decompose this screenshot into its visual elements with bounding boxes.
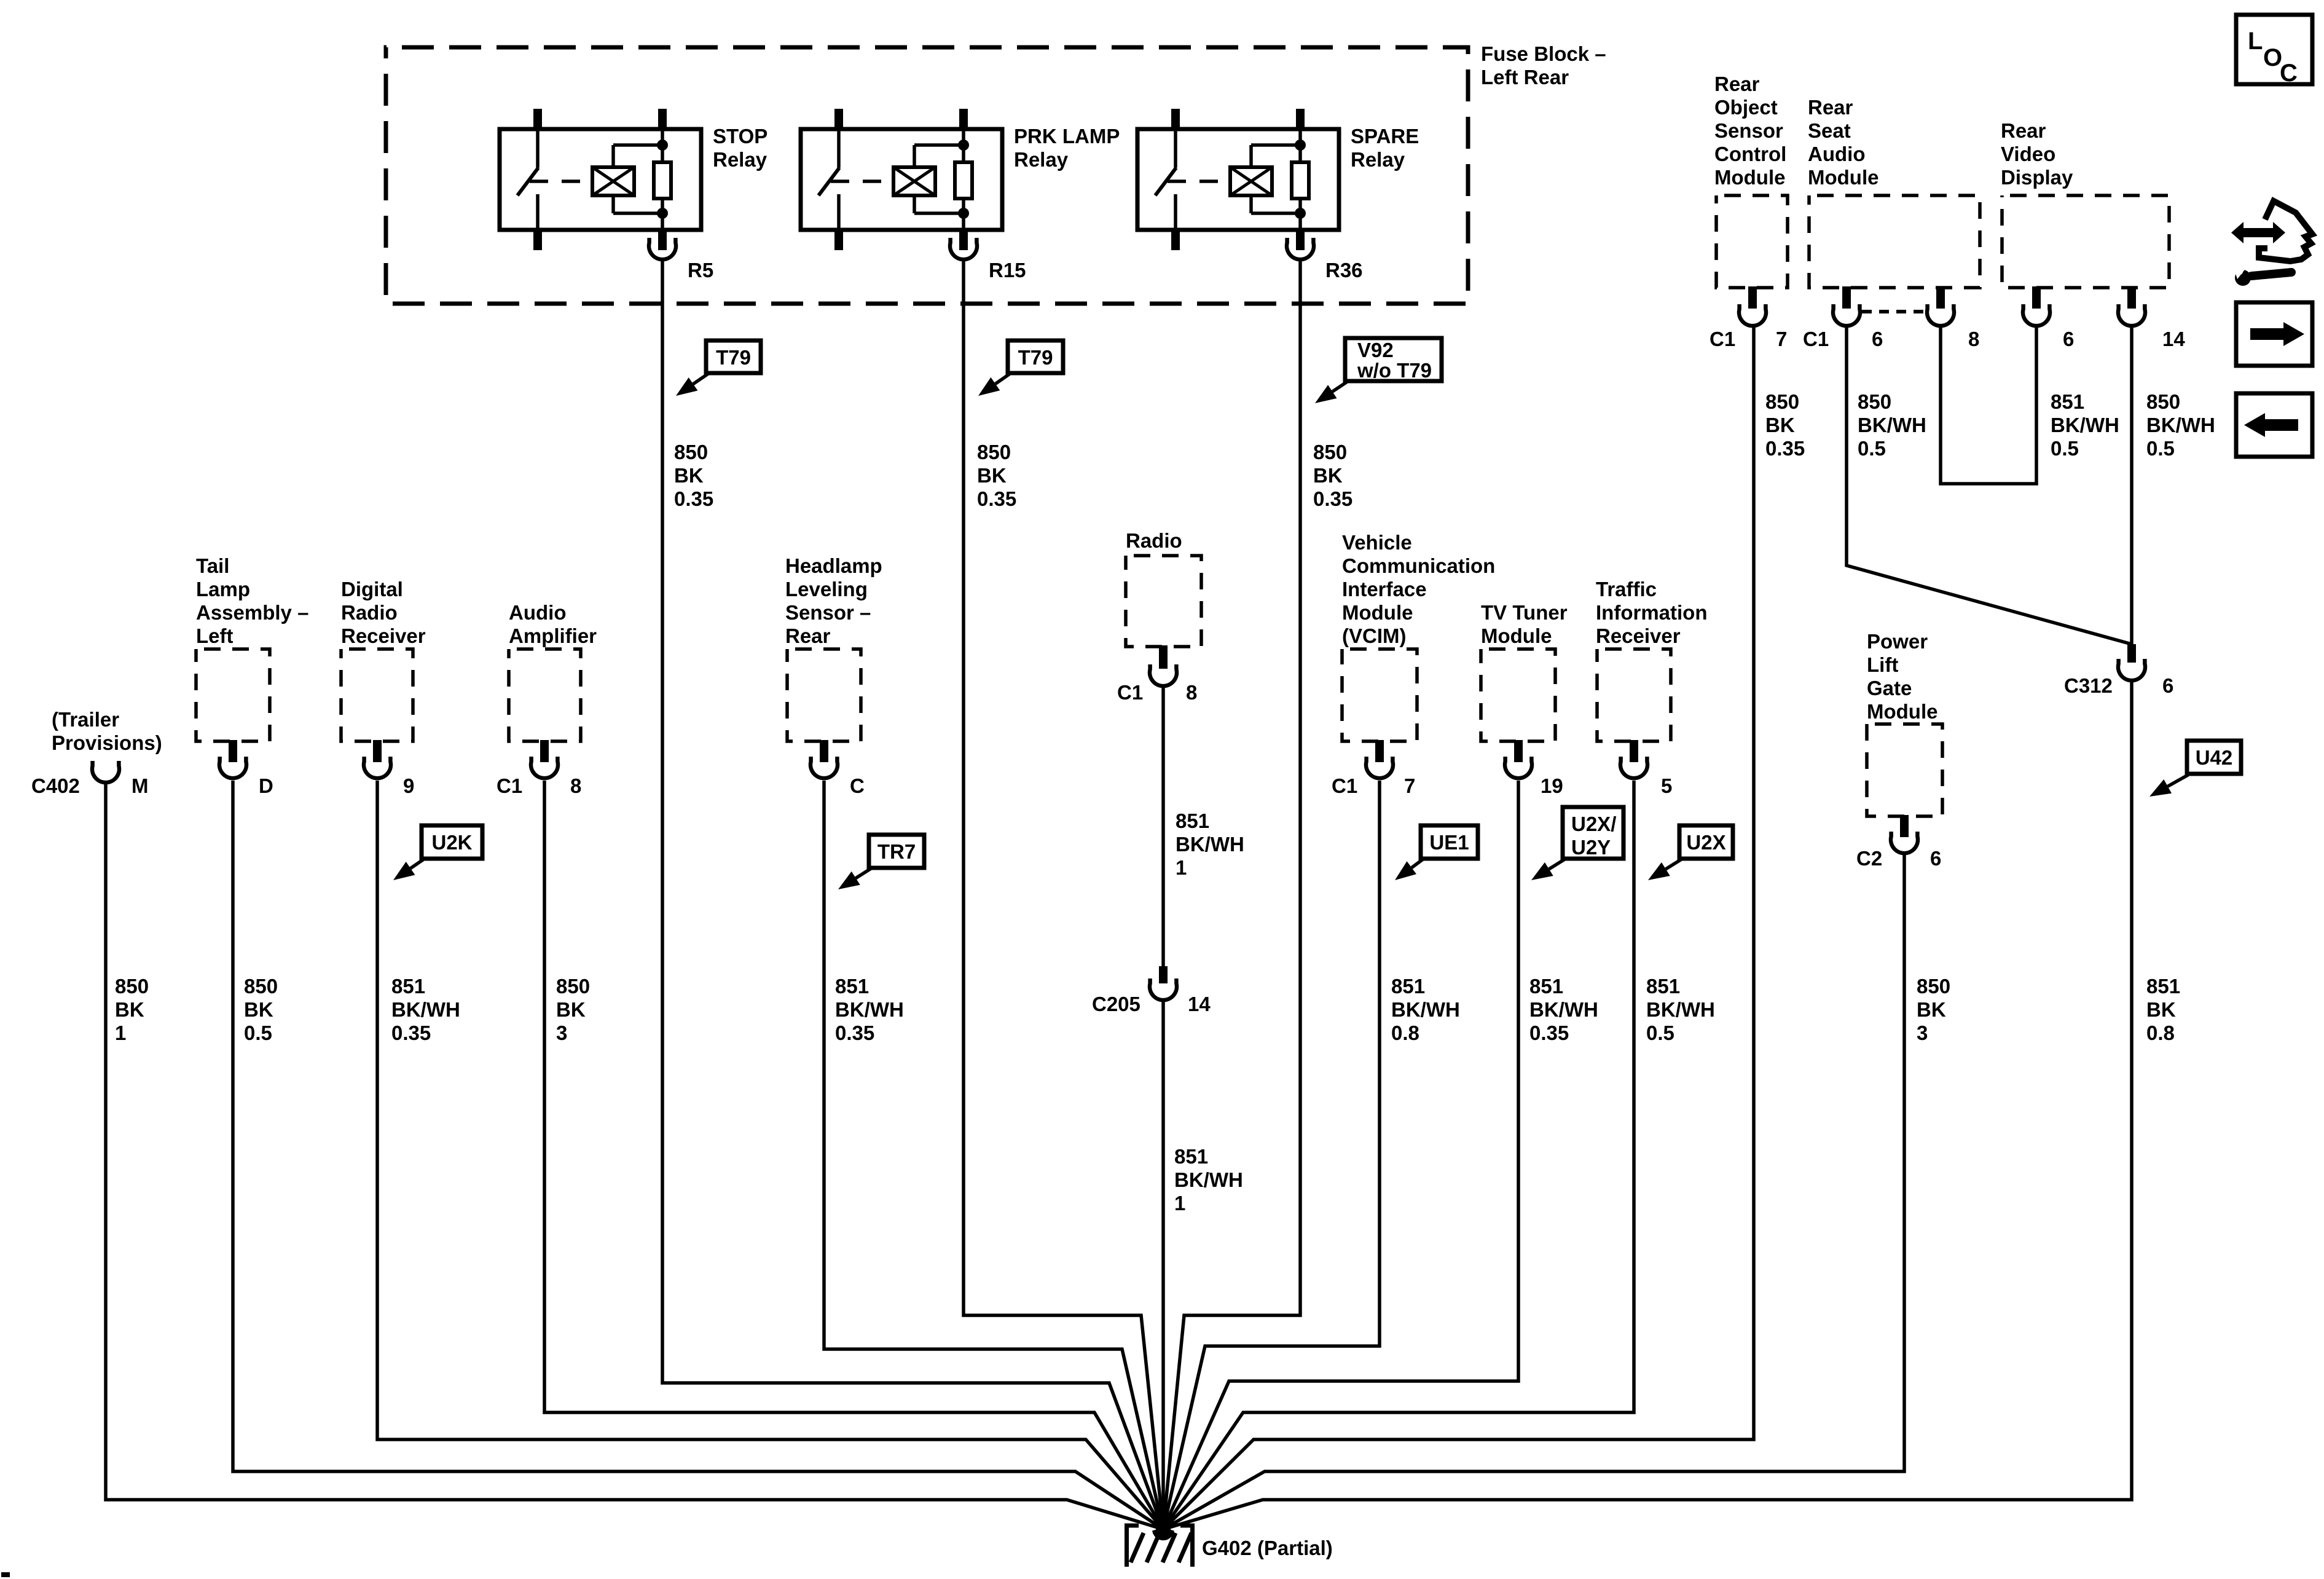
svg-text:G402 (Partial): G402 (Partial): [1202, 1537, 1333, 1559]
svg-text:BK/WH: BK/WH: [391, 998, 460, 1021]
svg-text:0.5: 0.5: [1858, 437, 1886, 460]
svg-text:BK: BK: [1917, 998, 1946, 1021]
svg-text:851: 851: [1174, 1145, 1208, 1168]
svg-text:0.35: 0.35: [1765, 437, 1805, 460]
svg-text:PRK LAMP: PRK LAMP: [1014, 125, 1120, 148]
svg-text:0.35: 0.35: [835, 1022, 874, 1044]
svg-text:Control: Control: [1714, 143, 1786, 165]
svg-text:V92: V92: [1357, 339, 1394, 361]
svg-text:BK/WH: BK/WH: [835, 998, 904, 1021]
svg-text:14: 14: [1188, 993, 1211, 1015]
svg-text:Receiver: Receiver: [341, 624, 426, 647]
svg-text:w/o T79: w/o T79: [1357, 359, 1432, 382]
svg-text:Interface: Interface: [1342, 578, 1427, 600]
svg-text:851: 851: [2051, 390, 2084, 413]
svg-text:0.35: 0.35: [391, 1022, 431, 1044]
svg-text:0.5: 0.5: [1646, 1022, 1674, 1044]
svg-text:BK/WH: BK/WH: [2051, 414, 2119, 436]
svg-text:Gate: Gate: [1867, 677, 1912, 699]
svg-text:Radio: Radio: [341, 601, 398, 624]
svg-text:U42: U42: [2196, 746, 2233, 769]
svg-text:BK: BK: [556, 998, 586, 1021]
svg-text:Provisions): Provisions): [52, 731, 162, 754]
svg-text:R15: R15: [989, 259, 1026, 282]
svg-text:8: 8: [1968, 328, 1979, 350]
svg-text:Rear: Rear: [785, 624, 831, 647]
svg-text:7: 7: [1404, 774, 1415, 797]
svg-text:0.35: 0.35: [1313, 487, 1352, 510]
svg-text:Relay: Relay: [1014, 148, 1069, 171]
svg-text:851: 851: [1529, 975, 1563, 998]
svg-text:Module: Module: [1808, 166, 1878, 189]
svg-text:850: 850: [1313, 441, 1347, 463]
svg-text:Module: Module: [1481, 624, 1552, 647]
svg-text:0.5: 0.5: [2051, 437, 2079, 460]
svg-text:BK: BK: [977, 464, 1007, 487]
svg-text:Receiver: Receiver: [1596, 624, 1681, 647]
svg-text:851: 851: [391, 975, 425, 998]
svg-text:Amplifier: Amplifier: [509, 624, 597, 647]
svg-text:851: 851: [2146, 975, 2180, 998]
svg-text:U2Y: U2Y: [1571, 836, 1611, 859]
svg-text:C312: C312: [2064, 674, 2113, 697]
svg-text:850: 850: [674, 441, 708, 463]
svg-text:C: C: [850, 774, 865, 797]
svg-text:Left: Left: [196, 624, 234, 647]
svg-text:7: 7: [1776, 328, 1787, 350]
svg-text:Rear: Rear: [1808, 96, 1853, 119]
svg-text:Power: Power: [1867, 630, 1928, 653]
svg-text:9: 9: [403, 774, 414, 797]
svg-text:Digital: Digital: [341, 578, 403, 600]
svg-text:C205: C205: [1092, 993, 1140, 1015]
svg-text:0.8: 0.8: [1391, 1022, 1419, 1044]
svg-text:Radio: Radio: [1126, 529, 1182, 552]
svg-text:BK: BK: [674, 464, 704, 487]
svg-text:Object: Object: [1714, 96, 1778, 119]
svg-text:SPARE: SPARE: [1351, 125, 1419, 148]
svg-text:0.5: 0.5: [2146, 437, 2175, 460]
svg-text:Display: Display: [2001, 166, 2073, 189]
svg-text:8: 8: [570, 774, 581, 797]
svg-text:0.35: 0.35: [674, 487, 713, 510]
svg-text:Lift: Lift: [1867, 653, 1898, 676]
svg-text:1: 1: [1174, 1192, 1185, 1215]
svg-text:3: 3: [556, 1022, 567, 1044]
svg-text:Lamp: Lamp: [196, 578, 250, 600]
svg-text:U2K: U2K: [431, 831, 472, 854]
svg-text:Headlamp: Headlamp: [785, 554, 882, 577]
svg-text:(Trailer: (Trailer: [52, 708, 119, 731]
svg-text:BK: BK: [2146, 998, 2176, 1021]
svg-text:BK: BK: [1765, 414, 1795, 436]
svg-text:U2X: U2X: [1686, 831, 1725, 854]
svg-text:851: 851: [835, 975, 869, 998]
svg-text:6: 6: [1872, 328, 1883, 350]
svg-text:Video: Video: [2001, 143, 2055, 165]
svg-text:850: 850: [244, 975, 278, 998]
svg-text:6: 6: [2162, 674, 2173, 697]
svg-text:R5: R5: [688, 259, 713, 282]
svg-text:1: 1: [115, 1022, 126, 1044]
svg-text:Information: Information: [1596, 601, 1707, 624]
svg-text:BK/WH: BK/WH: [1391, 998, 1460, 1021]
svg-text:Relay: Relay: [713, 148, 767, 171]
svg-text:850: 850: [1917, 975, 1950, 998]
svg-text:TV Tuner: TV Tuner: [1481, 601, 1568, 624]
svg-text:5: 5: [1661, 774, 1672, 797]
svg-text:1: 1: [1176, 856, 1187, 879]
svg-text:851: 851: [1176, 809, 1209, 832]
svg-text:T79: T79: [1018, 346, 1053, 369]
svg-text:Communication: Communication: [1342, 554, 1495, 577]
svg-text:U2X/: U2X/: [1571, 813, 1616, 835]
svg-text:STOP: STOP: [713, 125, 767, 148]
svg-text:19: 19: [1541, 774, 1563, 797]
svg-text:BK/WH: BK/WH: [1529, 998, 1598, 1021]
svg-text:BK/WH: BK/WH: [1174, 1168, 1243, 1191]
svg-text:BK: BK: [1313, 464, 1343, 487]
svg-text:Audio: Audio: [509, 601, 566, 624]
svg-text:6: 6: [2063, 328, 2074, 350]
svg-text:(VCIM): (VCIM): [1342, 624, 1406, 647]
svg-text:C1: C1: [1803, 328, 1829, 350]
svg-text:C1: C1: [1332, 774, 1357, 797]
svg-text:L: L: [2248, 28, 2263, 55]
svg-text:C1: C1: [1117, 681, 1143, 704]
svg-text:Sensor: Sensor: [1714, 119, 1783, 142]
svg-text:8: 8: [1186, 681, 1197, 704]
svg-text:0.35: 0.35: [1529, 1022, 1569, 1044]
svg-text:850: 850: [2146, 390, 2180, 413]
svg-text:14: 14: [2162, 328, 2185, 350]
svg-text:TR7: TR7: [877, 840, 916, 863]
svg-text:M: M: [132, 774, 149, 797]
svg-text:Seat: Seat: [1808, 119, 1851, 142]
svg-text:850: 850: [115, 975, 149, 998]
svg-text:C2: C2: [1856, 847, 1882, 870]
svg-text:0.35: 0.35: [977, 487, 1016, 510]
svg-text:0.8: 0.8: [2146, 1022, 2175, 1044]
svg-text:850: 850: [1858, 390, 1891, 413]
svg-text:R36: R36: [1325, 259, 1363, 282]
svg-text:Traffic: Traffic: [1596, 578, 1657, 600]
svg-text:BK: BK: [115, 998, 144, 1021]
svg-text:T79: T79: [716, 346, 751, 369]
svg-text:BK/WH: BK/WH: [1858, 414, 1926, 436]
svg-text:Rear: Rear: [1714, 73, 1760, 95]
svg-text:BK/WH: BK/WH: [1176, 833, 1244, 856]
svg-text:851: 851: [1391, 975, 1425, 998]
svg-text:C1: C1: [1710, 328, 1735, 350]
svg-text:851: 851: [1646, 975, 1680, 998]
svg-text:850: 850: [977, 441, 1011, 463]
svg-text:UE1: UE1: [1429, 831, 1469, 854]
svg-text:Assembly –: Assembly –: [196, 601, 308, 624]
svg-text:Relay: Relay: [1351, 148, 1405, 171]
svg-text:BK: BK: [244, 998, 273, 1021]
svg-text:C1: C1: [497, 774, 522, 797]
svg-text:Module: Module: [1342, 601, 1413, 624]
svg-text:3: 3: [1917, 1022, 1928, 1044]
svg-text:Module: Module: [1867, 700, 1937, 723]
svg-text:C: C: [2280, 60, 2298, 87]
svg-text:850: 850: [556, 975, 590, 998]
svg-text:Fuse Block –: Fuse Block –: [1481, 42, 1606, 65]
svg-text:Left Rear: Left Rear: [1481, 66, 1569, 89]
svg-text:BK/WH: BK/WH: [2146, 414, 2215, 436]
svg-text:Vehicle: Vehicle: [1342, 531, 1412, 554]
svg-text:Module: Module: [1714, 166, 1785, 189]
svg-text:D: D: [259, 774, 273, 797]
svg-text:Leveling: Leveling: [785, 578, 868, 600]
svg-text:850: 850: [1765, 390, 1799, 413]
svg-text:0.5: 0.5: [244, 1022, 272, 1044]
svg-text:C402: C402: [31, 774, 80, 797]
svg-text:BK/WH: BK/WH: [1646, 998, 1715, 1021]
svg-text:Rear: Rear: [2001, 119, 2046, 142]
svg-text:6: 6: [1930, 847, 1941, 870]
svg-text:Tail: Tail: [196, 554, 229, 577]
svg-text:Sensor –: Sensor –: [785, 601, 871, 624]
svg-text:Audio: Audio: [1808, 143, 1865, 165]
